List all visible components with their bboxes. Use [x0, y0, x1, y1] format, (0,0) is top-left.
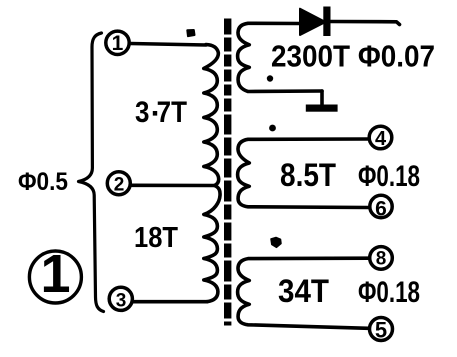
svg-text:18T: 18T	[134, 222, 178, 254]
svg-text:3 7T: 3 7T	[135, 96, 187, 129]
terminal 5	[370, 318, 393, 341]
svg-text:6: 6	[375, 198, 387, 221]
brace (Φ0.5 spans 1-2-3)	[79, 33, 104, 312]
wire diode to output	[331, 22, 400, 25]
svg-text:2300T Φ0.07: 2300T Φ0.07	[271, 39, 435, 74]
ground	[306, 105, 338, 112]
secondary winding 34T	[238, 258, 369, 328]
polarity dot 34T	[271, 238, 281, 248]
svg-text:8: 8	[376, 249, 387, 270]
terminal 8	[370, 247, 393, 270]
primary winding L1 (37T+18T)	[204, 45, 220, 302]
wire terminal3 to primary	[133, 300, 208, 304]
svg-text:Φ0.18: Φ0.18	[358, 276, 420, 309]
terminal 6	[370, 195, 392, 217]
svg-text:34T: 34T	[278, 273, 329, 309]
wire to ground	[320, 91, 324, 105]
diode D1	[300, 9, 326, 35]
terminal 3	[109, 287, 132, 310]
wire terminal2 tap to primary	[132, 184, 215, 188]
figure number circle	[29, 251, 81, 303]
svg-text:5: 5	[375, 318, 387, 343]
svg-text:Φ0.18: Φ0.18	[358, 160, 420, 193]
core (dashed laminations)	[224, 19, 231, 326]
svg-text:2: 2	[114, 174, 125, 195]
wire terminal1 to primary	[131, 44, 207, 46]
polarity dot 8.5T	[269, 125, 276, 132]
secondary winding 8.5T	[238, 139, 368, 208]
svg-text:1: 1	[40, 244, 70, 304]
svg-text:Φ0.5: Φ0.5	[18, 168, 68, 196]
svg-text:4: 4	[375, 128, 387, 150]
secondary winding 2300T	[238, 23, 322, 91]
svg-text:3: 3	[116, 291, 127, 312]
terminal 2	[107, 172, 130, 195]
polarity dot primary	[187, 30, 194, 36]
svg-text:8.5T: 8.5T	[280, 157, 336, 193]
terminal 1	[106, 31, 129, 54]
svg-text:1: 1	[112, 32, 124, 55]
terminal 4	[369, 126, 392, 149]
polarity dot 2300T	[267, 75, 273, 81]
decimal dot in 37T label	[153, 111, 157, 116]
